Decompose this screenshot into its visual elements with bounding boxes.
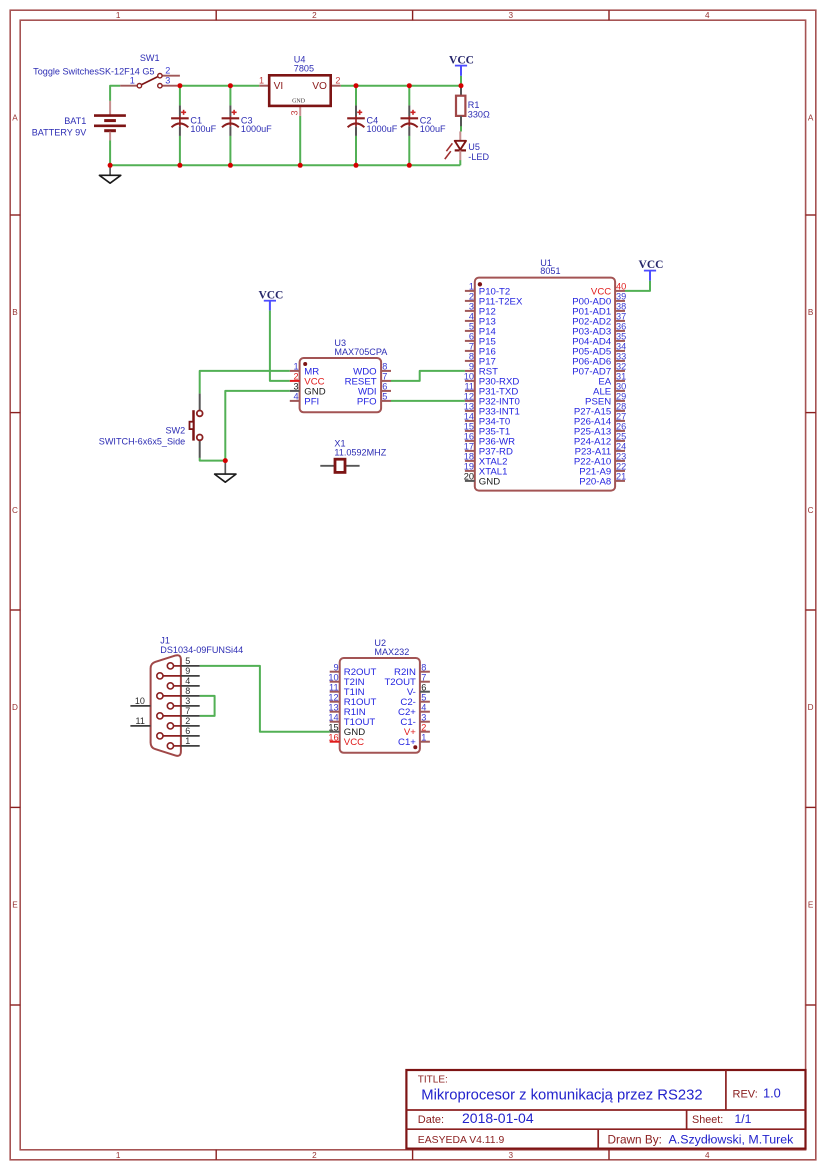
J1 pin 3 [167,696,199,709]
U1 pin 12 P32-INT0 [464,392,520,408]
svg-text:B: B [808,308,814,317]
U1 pin 26 P25-A13 [574,422,626,438]
svg-text:20: 20 [464,472,474,482]
svg-text:4: 4 [469,312,474,322]
U1 pin 1 P10-T2 [465,282,510,298]
svg-text:E: E [12,901,18,910]
power flag VCC (above U3) [258,289,283,310]
svg-text:10: 10 [464,372,474,382]
capacitor C1 [171,105,189,135]
svg-text:MAX705CPA: MAX705CPA [334,347,388,357]
svg-text:Mikroprocesor z komunikacją pr: Mikroprocesor z komunikacją przez RS232 [421,1088,702,1104]
U1 pin 23 P22-A10 [574,452,626,468]
U1 pin 9 RST [465,362,498,378]
svg-text:VI: VI [274,81,284,92]
svg-text:330Ω: 330Ω [468,109,490,119]
U1 pin 5 P14 [465,322,497,338]
svg-text:7805: 7805 [294,64,314,74]
svg-text:2: 2 [469,292,474,302]
svg-text:15: 15 [464,422,474,432]
U2 pin 13 R1IN [328,702,365,718]
svg-text:7: 7 [185,706,190,716]
svg-text:9: 9 [185,666,190,676]
junction [177,163,182,168]
svg-text:-LED: -LED [468,152,489,162]
U1 pin 33 P06-AD6 [572,352,626,368]
frame ruler ticks top [216,10,609,20]
U1 pin 24 P23-A11 [575,442,627,458]
svg-text:1: 1 [130,76,135,86]
U1 pin 10 P30-RXD [464,372,520,388]
svg-text:5: 5 [421,692,426,702]
svg-text:37: 37 [616,312,626,322]
svg-text:4: 4 [705,1151,710,1160]
svg-text:8051: 8051 [540,266,560,276]
svg-text:9: 9 [333,662,338,672]
U2 pin 16 VCC [328,732,364,748]
svg-text:13: 13 [328,702,338,712]
U1 pin 13 P33-INT1 [464,402,520,418]
J1 pin 2 [167,716,199,729]
U1 pin 32 P07-AD7 [572,362,626,378]
svg-text:D: D [12,703,18,712]
wire VCC flag to R1 junction [460,76,462,86]
svg-text:5: 5 [469,322,474,332]
svg-text:17: 17 [464,442,474,452]
U2 pin 5 C2- [400,692,429,708]
power flag VCC (top left) [449,54,474,75]
wire bottom ground rail [110,164,460,166]
U1 pin 22 P21-A9 [579,462,626,478]
frame ruler ticks left [10,215,20,1005]
U2 pin 8 R2IN [394,662,430,678]
crystal X1 11.0592MHZ [320,459,359,472]
U1 pin 30 ALE [593,382,626,398]
svg-text:VO: VO [312,81,327,92]
svg-text:A: A [808,114,814,123]
svg-text:A: A [12,114,18,123]
svg-text:6: 6 [382,382,387,392]
svg-text:3: 3 [289,110,299,115]
svg-text:BATTERY 9V: BATTERY 9V [32,128,88,138]
svg-text:SWITCH-6x6x5_Side: SWITCH-6x6x5_Side [99,436,185,446]
svg-text:D: D [808,703,814,712]
U1 pin 39 P00-AD0 [572,292,626,308]
svg-text:14: 14 [328,712,338,722]
frame column numbers bottom [116,1151,710,1160]
resistor R1 [456,86,465,127]
wire battery top to SW1 pin1 [110,86,120,101]
junction [228,83,233,88]
svg-text:5: 5 [185,656,190,666]
svg-text:18: 18 [464,452,474,462]
svg-text:1.0: 1.0 [763,1085,781,1100]
U2 pin 10 T2IN [328,672,364,688]
svg-text:2: 2 [312,1151,317,1160]
junction [354,163,359,168]
J1 mount pin 11 [130,716,150,726]
svg-text:C1+: C1+ [398,737,416,748]
wire U4 GND pin to rail [299,116,301,165]
svg-text:11: 11 [464,382,474,392]
svg-text:1/1: 1/1 [735,1112,752,1126]
J1 pin 4 [167,676,199,689]
wire U4 VO to VCC/R1 junction [341,85,461,87]
svg-text:3: 3 [293,382,298,392]
title block DrawnBy cell divider [597,1129,599,1148]
U2 pin 3 C1- [400,712,429,728]
U1 pin 25 P24-A12 [574,432,626,448]
svg-text:BAT1: BAT1 [64,116,86,126]
U2 pin 7 T2OUT [384,672,429,688]
svg-text:3: 3 [509,11,514,20]
U1 pin 16 P36-WR [464,432,515,448]
svg-text:33: 33 [616,352,626,362]
svg-text:10: 10 [135,696,145,706]
U1 pin 3 P12 [465,302,496,318]
svg-text:25: 25 [616,432,626,442]
svg-text:19: 19 [464,462,474,472]
svg-text:J1: J1 [160,636,170,646]
svg-text:11: 11 [136,716,145,726]
U3 pin 1 MR [290,362,319,378]
J1 pin 8 [157,686,200,699]
svg-text:26: 26 [616,422,626,432]
J1 pin 5 [167,656,199,669]
frame ruler ticks right [806,215,816,1005]
svg-text:3: 3 [509,1151,514,1160]
power flag VCC (above U1) [639,259,664,280]
svg-text:24: 24 [616,442,626,452]
U1 pin 6 P15 [465,332,496,348]
svg-text:12: 12 [464,392,474,402]
svg-text:PFI: PFI [304,396,319,407]
svg-text:6: 6 [421,682,426,692]
J1 pin 1 [167,736,199,749]
svg-text:11.0592MHZ: 11.0592MHZ [334,447,386,457]
svg-text:21: 21 [616,472,626,482]
U1 pin 17 P37-RD [464,442,513,458]
svg-text:4: 4 [421,702,426,712]
svg-text:15: 15 [328,722,338,732]
svg-text:MAX232: MAX232 [374,647,409,657]
junction [177,83,182,88]
wire SW2 bottom to ground junction [200,458,226,461]
svg-text:2: 2 [421,722,426,732]
svg-text:8: 8 [382,362,387,372]
U1 pin 31 EA [598,372,626,388]
IC U3 MAX705CPA body [300,358,382,412]
svg-text:A.Szydłowski, M.Turek: A.Szydłowski, M.Turek [669,1132,795,1146]
wire C1 top [179,86,181,106]
ground (battery) [99,165,120,183]
junction (ground node) [223,458,228,463]
svg-text:2: 2 [165,65,170,75]
svg-text:1: 1 [421,732,426,742]
svg-text:B: B [12,308,18,317]
capacitor C4 [347,105,365,135]
voltage regulator U4 7805 [259,75,340,116]
svg-text:7: 7 [469,342,474,352]
U1 pin 20 GND [464,472,500,488]
push switch SW2 [190,394,203,458]
wire C3 top [229,86,231,106]
wire C3 bottom [229,136,231,166]
svg-text:1: 1 [116,1151,121,1160]
svg-text:27: 27 [616,412,626,422]
junction [298,163,303,168]
svg-text:23: 23 [616,452,626,462]
connector J1 DS1034-09FUNSi44 shell [151,655,181,756]
svg-text:3: 3 [165,76,170,86]
svg-text:GND: GND [292,98,306,104]
svg-text:E: E [808,901,814,910]
U3 pin1 marker dot [303,362,307,366]
U1 pin 37 P02-AD2 [572,312,626,328]
J1 pin 6 [157,726,200,739]
U1 pin 11 P31-TXD [464,382,518,398]
U2 pin 4 C2+ [398,702,430,718]
svg-text:VCC: VCC [344,737,364,748]
frame ruler ticks bottom [216,1150,609,1160]
battery BAT1 BATTERY 9V [94,101,126,140]
U2 pin 15 GND [328,722,365,738]
U2 pin 14 T1OUT [328,712,375,728]
capacitor C3 [222,105,240,135]
svg-text:1000uF: 1000uF [367,124,398,134]
svg-text:8: 8 [421,662,426,672]
svg-text:38: 38 [616,302,626,312]
wire battery bottom to rail [109,140,111,165]
title block REV cell divider [725,1070,727,1110]
U1 pin 18 XTAL2 [464,452,508,468]
svg-text:7: 7 [421,672,426,682]
wire U3 MR to SW2 top [200,371,290,394]
junction [459,83,464,88]
frame row letters right [808,114,814,910]
svg-text:30: 30 [616,382,626,392]
title block outline [406,1070,805,1149]
wire R1 to LED [460,126,462,132]
J1 pin 7 [157,706,200,719]
toggle switch SW1 [120,74,180,88]
U2 pin1 marker dot [413,745,417,749]
wire U3 PFO to U1 P32-INT0 [391,400,465,402]
svg-text:2: 2 [293,372,298,382]
svg-text:13: 13 [464,402,474,412]
U1 pin 27 P26-A14 [574,412,626,428]
IC U1 8051 body [475,278,615,491]
U1 pin 8 P17 [465,352,496,368]
svg-text:40: 40 [616,282,626,292]
U1 pin 36 P03-AD3 [572,322,626,338]
svg-text:6: 6 [185,726,190,736]
wire C2 bottom [408,136,410,166]
svg-text:16: 16 [464,432,474,442]
svg-text:1000uF: 1000uF [241,124,272,134]
svg-text:8: 8 [469,352,474,362]
svg-text:4: 4 [705,11,710,20]
junction [354,83,359,88]
svg-text:Date:: Date: [418,1114,444,1126]
svg-text:5: 5 [382,392,387,402]
svg-text:29: 29 [616,392,626,402]
frame row letters left [12,114,18,910]
wire C4 bottom [355,136,357,166]
svg-text:2: 2 [312,11,317,20]
U1 pin 34 P05-AD5 [572,342,626,358]
svg-text:3: 3 [469,302,474,312]
svg-text:35: 35 [616,332,626,342]
svg-text:100uF: 100uF [190,124,216,134]
wire VCC flag to U3 VCC pin [270,310,290,381]
svg-text:34: 34 [616,342,626,352]
capacitor C2 [401,105,419,135]
IC U2 MAX232 body [340,658,420,753]
svg-text:12: 12 [328,692,338,702]
wire J1 pin5 to U2 GND [200,666,330,732]
U1 pin 2 P11-T2EX [465,292,523,308]
svg-text:2: 2 [335,76,340,86]
J1 mount pin 10 [130,696,150,706]
svg-text:Sheet:: Sheet: [692,1114,723,1126]
svg-text:9: 9 [469,362,474,372]
svg-text:11: 11 [329,682,339,692]
svg-text:GND: GND [479,476,500,487]
svg-text:100uF: 100uF [420,124,446,134]
svg-text:32: 32 [616,362,626,372]
svg-text:PFO: PFO [357,396,377,407]
svg-text:7: 7 [382,372,387,382]
U3 pin 7 RESET [345,372,391,388]
svg-text:1: 1 [469,282,474,292]
svg-text:22: 22 [616,462,626,472]
svg-text:1: 1 [293,362,298,372]
svg-text:C: C [808,506,814,515]
svg-text:VCC: VCC [639,259,664,271]
svg-text:VCC: VCC [449,54,474,66]
frame column numbers top [116,11,710,20]
junction [407,163,412,168]
svg-text:SW1: SW1 [140,53,160,63]
svg-text:10: 10 [328,672,338,682]
title block row divider 1 [406,1109,805,1111]
svg-text:C: C [12,506,18,515]
U2 pin 2 V+ [404,722,430,738]
U3 pin 2 VCC [290,372,325,388]
U2 pin 11 T1IN [329,682,365,698]
U1 pin 4 P13 [465,312,496,328]
wire C4 top [355,86,357,106]
ground (U3/SW2) [215,461,236,483]
U1 pin 40 VCC [591,282,626,298]
wire LED bottom to rail [459,160,461,165]
svg-text:2: 2 [185,716,190,726]
svg-text:U5: U5 [468,142,480,152]
svg-text:3: 3 [185,696,190,706]
svg-text:1: 1 [116,11,121,20]
svg-text:3: 3 [421,712,426,722]
U2 pin 6 V- [407,682,430,698]
wire U3 GND to ground junction [225,391,289,461]
svg-text:4: 4 [185,676,190,686]
junction [407,83,412,88]
U1 pin 28 P27-A15 [574,402,626,418]
wire SW1 pin3 junction to C3 junction to U4 VI [180,85,259,87]
title block Sheet cell divider [686,1110,688,1129]
svg-text:6: 6 [469,332,474,342]
wire C1 bottom [179,136,181,166]
U1 pin1 marker dot [478,282,482,286]
svg-text:Toggle SwitchesSK-12F14 G5: Toggle SwitchesSK-12F14 G5 [33,67,154,77]
wire U3 RESET to U1 RST [391,371,465,381]
svg-text:2018-01-04: 2018-01-04 [462,1110,534,1126]
wire C2 top [408,86,410,106]
junction [108,163,113,168]
wire J1 pin8 to pin7 jog [200,696,215,716]
U3 pin 5 PFO [357,392,391,408]
title block row divider 2 [406,1128,805,1130]
svg-text:8: 8 [185,686,190,696]
U1 pin 7 P16 [465,342,496,358]
U1 pin 19 XTAL1 [464,462,508,478]
U3 pin 4 PFI [290,392,319,408]
svg-text:14: 14 [464,412,474,422]
U1 pin 15 P35-T1 [464,422,511,438]
svg-text:36: 36 [616,322,626,332]
J1 pin 9 [157,666,200,679]
U2 pin 1 C1+ [398,732,430,748]
svg-text:REV:: REV: [733,1088,758,1100]
LED U5 [445,131,466,160]
svg-text:TITLE:: TITLE: [418,1075,448,1086]
svg-text:DS1034-09FUNSi44: DS1034-09FUNSi44 [160,645,243,655]
U3 pin 6 WDI [358,382,391,398]
U3 pin 8 WDO [353,362,391,378]
svg-text:1: 1 [259,76,264,86]
U2 pin 12 R1OUT [328,692,376,708]
svg-text:16: 16 [328,732,338,742]
U1 pin 21 P20-A8 [579,472,626,488]
svg-text:39: 39 [616,292,626,302]
svg-text:4: 4 [293,392,298,402]
svg-text:Drawn By:: Drawn By: [608,1132,662,1146]
svg-text:31: 31 [616,372,626,382]
svg-text:1: 1 [185,736,190,746]
U1 pin 29 PSEN [585,392,626,408]
svg-text:P20-A8: P20-A8 [579,476,611,487]
U1 pin 35 P04-AD4 [572,332,626,348]
junction [228,163,233,168]
U1 pin 14 P34-T0 [464,412,511,428]
svg-text:SW2: SW2 [165,426,185,436]
U3 pin 3 GND [290,382,326,398]
U2 pin 9 R2OUT [330,662,377,678]
wire U1 VCC pin to VCC flag [625,281,650,291]
svg-text:VCC: VCC [258,289,283,301]
svg-text:28: 28 [616,402,626,412]
U1 pin 38 P01-AD1 [572,302,626,318]
svg-text:EASYEDA V4.11.9: EASYEDA V4.11.9 [418,1135,505,1146]
